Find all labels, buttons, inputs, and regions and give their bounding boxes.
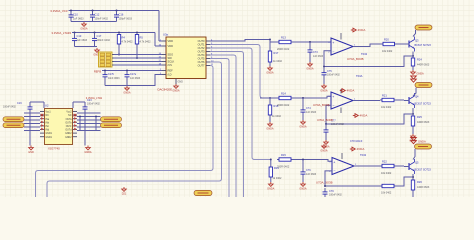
svg-text:NC: NC <box>46 115 50 117</box>
svg-text:C13: C13 <box>77 34 82 38</box>
svg-text:GND2: GND2 <box>65 137 72 139</box>
svg-text:U7DA_BO0B: U7DA_BO0B <box>317 118 333 122</box>
svg-text:100nF 0402: 100nF 0402 <box>3 106 16 109</box>
svg-text:D21: D21 <box>122 193 127 196</box>
svg-text:C10: C10 <box>73 13 78 17</box>
svg-text:3.3VDA_VC3: 3.3VDA_VC3 <box>50 9 68 13</box>
svg-text:/CS: /CS <box>168 63 173 67</box>
svg-text:OUT0: OUT0 <box>198 39 205 43</box>
svg-text:4.7k 0402: 4.7k 0402 <box>140 41 152 44</box>
svg-text:GND1: GND1 <box>46 133 53 135</box>
svg-text:+: + <box>332 95 334 99</box>
svg-text:10nF 0603: 10nF 0603 <box>108 77 120 80</box>
svg-text:R14: R14 <box>281 92 286 96</box>
svg-text:OUT7: OUT7 <box>198 64 205 68</box>
svg-text:Q4: Q4 <box>415 95 419 99</box>
svg-text:100nF 0402: 100nF 0402 <box>97 39 111 42</box>
svg-text:GNDA: GNDA <box>267 188 275 191</box>
svg-text:U7DA_BO3B: U7DA_BO3B <box>316 181 333 185</box>
svg-text:GNDA: GNDA <box>418 140 426 144</box>
svg-text:GNDA: GNDA <box>80 28 88 31</box>
svg-text:10k 0402: 10k 0402 <box>382 50 393 53</box>
svg-text:C17a: C17a <box>130 73 137 76</box>
svg-text:C17: C17 <box>97 34 102 38</box>
svg-text:GND1: GND1 <box>46 137 53 139</box>
svg-text:R15: R15 <box>281 153 286 157</box>
svg-text:1k 0402: 1k 0402 <box>273 177 283 180</box>
svg-text:NC: NC <box>68 115 72 117</box>
svg-text:1nF 0603: 1nF 0603 <box>306 173 317 176</box>
svg-text:Q5: Q5 <box>415 161 419 165</box>
svg-text:3.3VDA_LTA93: 3.3VDA_LTA93 <box>51 31 71 35</box>
svg-text:Vcc1: Vcc1 <box>46 112 52 114</box>
svg-text:10k 0402: 10k 0402 <box>381 192 392 195</box>
svg-text:R13: R13 <box>281 36 286 40</box>
svg-text:ISO7740: ISO7740 <box>48 147 60 151</box>
svg-text:OUTa: OUTa <box>66 119 73 121</box>
svg-text:C17b: C17b <box>108 73 115 76</box>
svg-text:100nF 0402: 100nF 0402 <box>331 123 344 126</box>
svg-text:SDI: SDI <box>168 56 173 60</box>
svg-text:T032: T032 <box>360 153 367 157</box>
svg-text:GNDA: GNDA <box>417 73 425 76</box>
svg-text:R22: R22 <box>382 160 387 164</box>
svg-text:+: + <box>333 161 335 165</box>
svg-text:REF: REF <box>168 69 174 73</box>
svg-text:VDD: VDD <box>168 44 174 48</box>
svg-text:/LD: /LD <box>168 73 172 77</box>
svg-text:C73: C73 <box>313 51 318 54</box>
svg-text:4VDA: 4VDA <box>347 89 355 93</box>
svg-text:3.3VDA_LTA9: 3.3VDA_LTA9 <box>86 96 103 100</box>
svg-text:OUT2: OUT2 <box>198 46 205 50</box>
svg-text:U3a: U3a <box>163 33 168 37</box>
svg-text:SDO: SDO <box>168 53 174 57</box>
svg-text:10k 0402: 10k 0402 <box>381 172 392 175</box>
svg-text:1k 0402: 1k 0402 <box>272 115 282 118</box>
svg-text:4VDA: 4VDA <box>357 147 365 151</box>
svg-text:U7DA_BO0B: U7DA_BO0B <box>313 103 330 107</box>
svg-text:REFB: REFB <box>94 69 101 73</box>
svg-text:4VDA: 4VDA <box>360 114 368 118</box>
svg-text:C16: C16 <box>119 13 124 17</box>
svg-text:200R 0402: 200R 0402 <box>277 104 290 107</box>
svg-text:GND: GND <box>178 81 184 84</box>
svg-text:GNDA: GNDA <box>320 90 328 93</box>
svg-text:GNDA: GNDA <box>299 188 307 191</box>
svg-text:Q3: Q3 <box>415 39 419 43</box>
svg-text:C78 100nF: C78 100nF <box>350 140 363 143</box>
svg-text:GND: GND <box>28 151 34 154</box>
svg-text:R21: R21 <box>382 94 387 98</box>
svg-text:100nF 0402: 100nF 0402 <box>329 194 342 197</box>
svg-text:BC817 SOT23: BC817 SOT23 <box>415 102 432 105</box>
svg-text:BC817 SOT23: BC817 SOT23 <box>415 168 432 171</box>
svg-text:1nF 0603: 1nF 0603 <box>313 55 324 58</box>
svg-text:T032: T032 <box>361 52 368 56</box>
svg-text:1nF 0603: 1nF 0603 <box>306 111 317 114</box>
svg-text:R17: R17 <box>274 51 279 55</box>
svg-text:C74: C74 <box>306 107 311 110</box>
svg-text:−: − <box>333 169 335 173</box>
svg-text:C76: C76 <box>306 169 311 172</box>
svg-text:GNDA: GNDA <box>306 68 314 71</box>
svg-text:+: + <box>332 41 334 45</box>
svg-text:OUT1: OUT1 <box>198 43 205 47</box>
svg-text:Vcc2: Vcc2 <box>66 112 72 114</box>
svg-text:OUT4: OUT4 <box>198 53 205 57</box>
svg-text:200R 0402: 200R 0402 <box>277 48 290 51</box>
svg-text:OUT6: OUT6 <box>198 60 205 64</box>
svg-text:100nF 0402: 100nF 0402 <box>87 103 100 106</box>
svg-text:1k 0402: 1k 0402 <box>273 60 283 63</box>
svg-text:GNDA: GNDA <box>266 72 274 75</box>
svg-text:440R 0603: 440R 0603 <box>417 186 430 189</box>
svg-text:BC817 SOT23: BC817 SOT23 <box>415 44 432 47</box>
svg-text:R26: R26 <box>417 180 422 184</box>
svg-text:SCLK: SCLK <box>168 60 175 64</box>
svg-text:1uF 0603: 1uF 0603 <box>77 39 88 42</box>
svg-text:4VDA: 4VDA <box>358 28 366 32</box>
svg-text:100pF 0603: 100pF 0603 <box>119 18 133 21</box>
svg-text:U2: U2 <box>45 104 49 108</box>
svg-text:GNDA: GNDA <box>172 90 180 93</box>
svg-text:−: − <box>332 104 334 108</box>
svg-text:1uF 0603: 1uF 0603 <box>73 18 84 21</box>
svg-text:VDD: VDD <box>168 39 174 43</box>
svg-text:GND2: GND2 <box>65 133 72 135</box>
svg-text:440R 0603: 440R 0603 <box>417 64 430 67</box>
svg-text:4.7k 0402: 4.7k 0402 <box>122 41 134 44</box>
svg-text:R24: R24 <box>417 58 422 62</box>
svg-text:R4: R4 <box>122 36 126 40</box>
svg-text:C19: C19 <box>17 102 22 105</box>
svg-text:GNDA: GNDA <box>266 128 274 131</box>
svg-text:GNDA: GNDA <box>84 151 92 154</box>
svg-text:100nF 0402: 100nF 0402 <box>327 74 340 77</box>
svg-text:U7DA_BO3B: U7DA_BO3B <box>347 57 364 61</box>
svg-text:200R 0402: 200R 0402 <box>277 166 290 169</box>
svg-text:440R 0603: 440R 0603 <box>417 121 430 124</box>
svg-text:GNDA: GNDA <box>320 150 328 153</box>
svg-text:T03A: T03A <box>356 74 363 78</box>
svg-text:C12: C12 <box>95 13 100 17</box>
svg-text:OUTd: OUTd <box>65 130 72 132</box>
svg-text:10k 0402: 10k 0402 <box>381 106 392 109</box>
svg-text:R25: R25 <box>417 115 422 119</box>
svg-text:OUT3: OUT3 <box>198 50 205 54</box>
svg-text:GNDA: GNDA <box>123 92 131 95</box>
svg-text:−: − <box>332 50 334 54</box>
svg-text:1nF 0603: 1nF 0603 <box>130 77 141 80</box>
svg-text:OUTb: OUTb <box>65 122 72 124</box>
svg-text:GNDA: GNDA <box>299 126 307 129</box>
svg-text:R5: R5 <box>140 36 144 40</box>
svg-text:OUTc: OUTc <box>66 126 73 128</box>
svg-text:OUT5: OUT5 <box>198 57 205 61</box>
svg-text:R20: R20 <box>384 38 389 42</box>
svg-text:DAC8420E: DAC8420E <box>158 88 173 92</box>
svg-text:100nF 0402: 100nF 0402 <box>95 18 109 21</box>
